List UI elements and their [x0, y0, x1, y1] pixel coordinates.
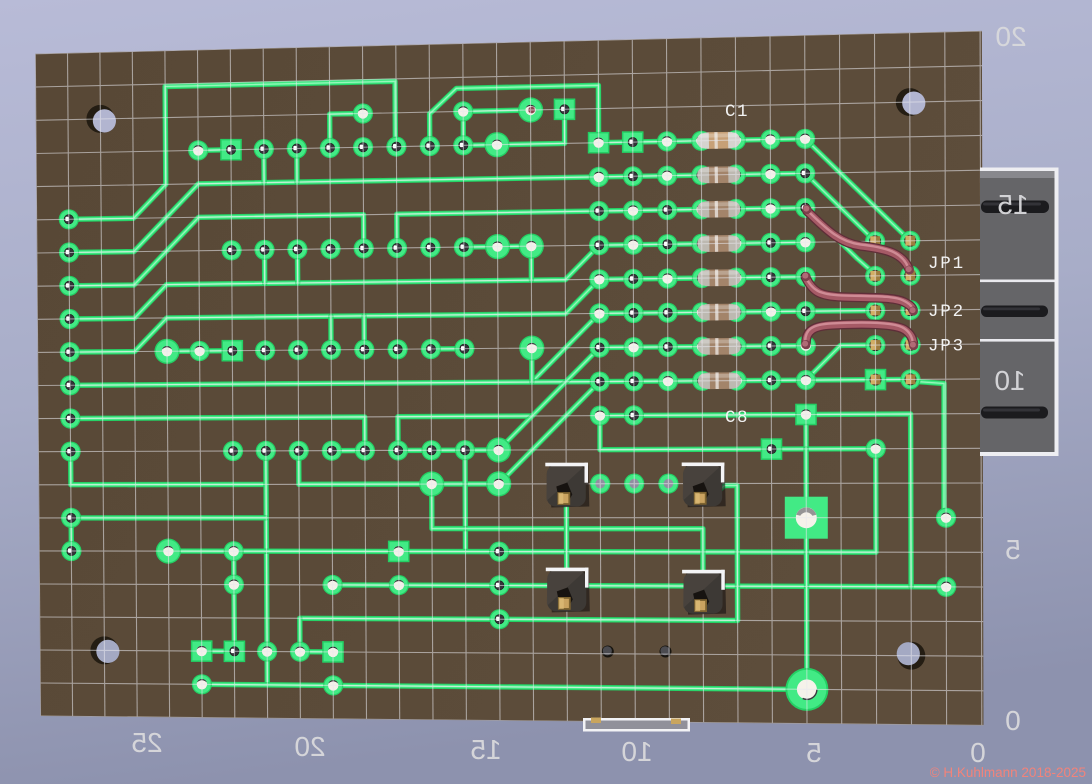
resistor row v5 — [697, 201, 740, 218]
pad (23,8) — [796, 301, 816, 321]
pad (18,6) — [623, 235, 643, 255]
resistor row v9 — [698, 338, 741, 355]
wire jp link 23-10 — [806, 345, 876, 380]
mounting hole top-right — [896, 88, 924, 116]
pad (11,12) — [388, 440, 408, 460]
pad (1,12) — [61, 442, 81, 462]
pad (22,7) — [761, 267, 781, 287]
svg-text:C1: C1 — [725, 102, 749, 122]
wire net big square column — [803, 449, 809, 690]
pad (4,9) — [154, 339, 179, 364]
capacitor C1 body — [697, 132, 740, 149]
mounting hole bottom-right — [897, 642, 925, 670]
pad (19,8) — [658, 303, 678, 323]
pad (8,3) — [287, 138, 307, 158]
wire net F tap u10 — [361, 316, 367, 350]
pad (1,9) — [60, 342, 80, 362]
wire row v5 right chain — [599, 208, 805, 211]
jumper pad (26,6) — [900, 231, 920, 251]
wire net v13 line — [299, 451, 499, 485]
svg-text:C8: C8 — [725, 408, 749, 428]
pad (22,12) — [761, 438, 783, 460]
pad (13,2) — [453, 101, 473, 121]
wire wire column u7 — [266, 451, 267, 652]
pad (21,4) — [726, 164, 746, 184]
pad (18,8) — [623, 303, 643, 323]
pad (22,9) — [761, 336, 781, 356]
pad (23,5) — [795, 198, 815, 218]
pad (5,3) — [188, 140, 208, 160]
pad (6,6) — [222, 240, 242, 260]
jumper wire W3 pad(23,9)->JP3 — [806, 324, 914, 344]
pad (18,11) — [624, 405, 644, 425]
wire net J tap v19 — [264, 652, 270, 685]
connector pin slot 2 — [981, 306, 1048, 318]
svg-text:25: 25 — [131, 727, 162, 758]
pad (14,17) — [489, 609, 509, 629]
pad (13,9) — [454, 339, 474, 359]
wire net B (v4 bus) — [69, 177, 599, 253]
pad (9,19) — [323, 675, 343, 695]
svg-text:0: 0 — [970, 737, 986, 768]
svg-text:10: 10 — [994, 365, 1025, 396]
connector bank (right edge, 3 sections) — [980, 168, 1059, 457]
wire net B tap u8 — [294, 149, 300, 183]
svg-text:15: 15 — [470, 734, 501, 765]
wire net I (v11 mid) — [398, 416, 532, 450]
pad (23,7) — [795, 267, 815, 287]
resistor row v6 — [697, 235, 740, 252]
pad (1,11) — [60, 408, 80, 428]
pad (5,19) — [192, 674, 212, 694]
jumper pad (25,7) — [865, 266, 885, 286]
wire row v3 right chain — [599, 139, 806, 143]
wire net pad10-2 jog — [330, 114, 363, 148]
connector divider lines — [980, 280, 1055, 283]
edge connector bottom (far-side part) — [583, 718, 690, 732]
mounting hole top-left — [86, 105, 114, 133]
pad (11,3) — [386, 137, 406, 157]
wire diagonal pad14-12 to pad17-9 — [499, 348, 600, 451]
pad (6,12) — [223, 441, 243, 461]
wire row v3 seg a — [198, 147, 231, 153]
wire column u6 v15-v18 — [231, 551, 237, 651]
pad (7,9) — [255, 340, 275, 360]
small hole left — [602, 646, 614, 658]
pad (18,7) — [623, 269, 643, 289]
pad (20,3) — [691, 131, 711, 151]
pad (20,6) — [692, 234, 712, 254]
pad (18,4) — [623, 166, 643, 186]
resistor row v8 — [698, 304, 741, 321]
wire net pair to pad27-14 — [912, 381, 947, 515]
svg-text:JP2: JP2 — [928, 302, 965, 322]
wire net v1b (second top bus) — [430, 85, 599, 146]
ruler numbers (mirrored bottom axis) — [131, 727, 162, 758]
svg-text:15: 15 — [997, 189, 1028, 220]
pad (4,15) — [156, 539, 181, 564]
pad (17,3) — [588, 132, 610, 154]
mounting hole bottom-left — [90, 636, 118, 664]
pad (13,6) — [454, 237, 474, 257]
svg-text:© H.Kuhlmann 2018-2025: © H.Kuhlmann 2018-2025 — [930, 765, 1086, 780]
pad (23,10) — [796, 370, 816, 390]
pad (1,6) — [59, 242, 79, 262]
switch SW2 — [682, 463, 726, 508]
pad (19,7) — [657, 268, 677, 288]
jumper pad (25,9) — [865, 335, 885, 355]
wire net F (v8 bus) — [70, 279, 600, 352]
pad (14,3) — [484, 132, 509, 157]
wire net G spur row10 — [532, 379, 600, 385]
big square pad (23,14) — [785, 497, 828, 539]
wire row v6 right chain — [599, 242, 805, 245]
pad (21,8) — [726, 302, 746, 322]
wire net v12 right — [600, 416, 876, 450]
pad (23,3) — [795, 129, 815, 149]
pad (8,12) — [289, 441, 309, 461]
switch SW3 — [546, 568, 590, 613]
pad (17,4) — [589, 167, 609, 187]
wire net left v14-v15 — [68, 518, 74, 551]
pad (10,9) — [354, 340, 374, 360]
pad (14,15) — [489, 542, 509, 562]
pad (6,15) — [224, 541, 244, 561]
wire net E tap u8 — [295, 249, 301, 283]
svg-text:5: 5 — [806, 737, 822, 768]
pad (22,4) — [760, 164, 780, 184]
wire net v17 bus — [300, 618, 738, 620]
wire net A (row1 top bus) — [69, 81, 396, 219]
svg-text:20: 20 — [294, 731, 325, 762]
wire net G (v10 bus) — [70, 313, 599, 385]
wire net E tap u7 — [262, 250, 268, 284]
pad (20,7) — [692, 268, 712, 288]
pad (8,6) — [287, 239, 307, 259]
pad (22,3) — [760, 129, 780, 149]
svg-text:5: 5 — [1005, 534, 1021, 565]
pad (18,9) — [624, 337, 644, 357]
wire row v11 pair — [600, 413, 634, 419]
pad (18,3) — [622, 131, 644, 153]
resistor row v10 — [698, 372, 741, 389]
pad (7,6) — [254, 240, 274, 260]
wire jp diag 23-5 — [805, 208, 875, 276]
pad (10,2) — [353, 103, 373, 123]
pad (6,16) — [224, 575, 244, 595]
wire row v9 mid seg — [431, 346, 465, 352]
pad (25,12) — [866, 439, 886, 459]
wire pair v10 row — [806, 377, 911, 383]
wire row v12 seg b — [398, 447, 499, 453]
pad (5,9) — [190, 341, 210, 361]
wire net B tap u7 — [261, 149, 267, 183]
wire net J (v13 left) — [71, 452, 266, 485]
svg-text:10: 10 — [621, 736, 652, 767]
pad (1,15) — [61, 541, 81, 561]
pad (19,4) — [657, 166, 677, 186]
pad (19,5) — [657, 200, 677, 220]
pad (27,16) — [936, 577, 956, 597]
pad (14,16) — [489, 575, 509, 595]
pad pair (26,10) — [900, 369, 920, 389]
pad (17,6) — [589, 235, 609, 255]
svg-text:JP3: JP3 — [928, 337, 965, 357]
pad (1,5) — [59, 209, 79, 229]
big round pad (23,19) — [785, 668, 828, 711]
pad (9,12) — [322, 441, 342, 461]
pad (17,10) — [590, 372, 610, 392]
jumper pad (26,8) — [900, 300, 920, 320]
pad (16,2) — [554, 99, 576, 121]
pad (23,11) — [795, 404, 817, 426]
pad (14,13) — [486, 471, 511, 496]
wire net pad13-2 drop — [461, 111, 466, 145]
pad (11,16) — [389, 575, 409, 595]
pad (8,18) — [290, 642, 310, 662]
wire row v18 seg a — [202, 648, 235, 654]
pad (9,3) — [320, 138, 340, 158]
pad (23,6) — [795, 232, 815, 252]
wire net v14 line — [71, 515, 266, 521]
jumper pad (26,9) — [900, 335, 920, 355]
pad (21,7) — [726, 268, 746, 288]
pad (12,6) — [420, 237, 440, 257]
pad (19,9) — [658, 337, 678, 357]
pad (11,6) — [387, 238, 407, 258]
grid overlay — [35, 31, 983, 726]
pad (19,6) — [657, 234, 677, 254]
pad (9,6) — [320, 239, 340, 259]
wire row v3 seg b — [463, 142, 497, 148]
wire row v12 seg a — [332, 448, 365, 454]
wire net D (v5 right) — [397, 211, 599, 248]
pad (17,11) — [590, 406, 610, 426]
wire net v19 bottom bus — [202, 684, 807, 689]
wire row v4 right chain — [599, 173, 805, 177]
pad (22,6) — [761, 233, 781, 253]
wire net sq16-2 link — [497, 109, 565, 144]
pad (15,6) — [519, 234, 544, 259]
pad (12,12) — [421, 440, 441, 460]
wire net v15 bus — [234, 449, 876, 553]
wire row v9 right chain — [600, 346, 806, 348]
wire net C (v5 left) — [69, 215, 363, 286]
jumper wire W1 pad(23,5)->JP1 — [807, 211, 909, 269]
svg-text:0: 0 — [1005, 705, 1021, 736]
wire net v15 seg left — [168, 548, 233, 554]
pad (22,5) — [761, 198, 781, 218]
pad (19,13) — [658, 474, 678, 494]
pad (19,3) — [657, 131, 677, 151]
PCB board substrate (bottom view) — [35, 31, 983, 726]
wire net G tap pad15-9 — [529, 348, 535, 382]
pad (14,12) — [486, 437, 511, 462]
wire jp diag 23-4 — [805, 173, 875, 241]
wire net F tap u9 — [328, 316, 334, 350]
switch SW4 — [682, 570, 726, 615]
wire net E (v7 bus) — [70, 245, 600, 319]
resistor row v7 — [698, 269, 741, 286]
pad (18,10) — [624, 371, 644, 391]
wire row v9 left seg — [167, 348, 232, 354]
pad (9,9) — [321, 340, 341, 360]
switch SW1 — [545, 463, 589, 508]
pad (22,10) — [761, 370, 781, 390]
pad (17,9) — [590, 337, 610, 357]
pad (12,9) — [421, 339, 441, 359]
pad (6,18) — [224, 641, 246, 663]
pad (27,14) — [936, 508, 956, 528]
pad (12,3) — [420, 136, 440, 156]
pad (7,18) — [257, 641, 277, 661]
pad (19,10) — [658, 371, 678, 391]
jumper pad (26,7) — [900, 265, 920, 285]
wire row v10 right chain — [600, 380, 806, 382]
pad (20,5) — [692, 199, 712, 219]
wire net v16 bus — [333, 585, 947, 587]
pad (1,10) — [60, 375, 80, 395]
pad (1,14) — [61, 508, 81, 528]
pad (9,18) — [322, 641, 344, 663]
wire jp link 23-8 — [806, 308, 876, 314]
wire row v8 right chain — [599, 311, 805, 313]
wire row v7 right chain — [599, 277, 805, 280]
pad (15,2) — [518, 97, 543, 122]
pad (12,13) — [419, 471, 444, 496]
pad (22,8) — [761, 302, 781, 322]
pad (10,3) — [353, 137, 373, 157]
resistor row v4 — [697, 166, 740, 183]
pad (1,8) — [60, 309, 80, 329]
pad (9,16) — [323, 575, 343, 595]
pad (20,8) — [692, 302, 712, 322]
wire net v16-v11 riser — [634, 414, 911, 587]
pad (20,10) — [692, 371, 712, 391]
jumper wire W2 pad(23,7)->JP2 — [806, 278, 913, 310]
pad (15,9) — [519, 336, 544, 361]
wire row v18 seg b — [300, 649, 333, 655]
pad (10,12) — [355, 440, 375, 460]
wire diagonal pad14-13 to pad17-10 — [499, 382, 600, 484]
pad (20,9) — [692, 337, 712, 357]
pad (8,9) — [288, 340, 308, 360]
pad (21,9) — [726, 336, 746, 356]
pad (23,9) — [796, 336, 816, 356]
wire net swD feed — [432, 484, 703, 578]
connector pin slot 3 — [981, 407, 1048, 419]
wire net swA-swC link — [564, 504, 570, 577]
pad (23,4) — [795, 163, 815, 183]
wire solder glints — [803, 204, 810, 211]
pad (21,3) — [726, 130, 746, 150]
pad (17,7) — [589, 269, 609, 289]
wire net swB contact link — [715, 486, 738, 621]
wire net sq23-11 drop — [803, 415, 808, 449]
pad (6,3) — [220, 139, 242, 161]
pad (7,3) — [254, 139, 274, 159]
pad (21,6) — [726, 233, 746, 253]
pad (13,12) — [455, 440, 475, 460]
small hole right — [660, 646, 672, 658]
pad (20,4) — [691, 165, 711, 185]
pad (1,7) — [59, 276, 79, 296]
pad (17,13) — [590, 474, 610, 494]
wire jp diag 23-3 — [805, 139, 910, 241]
jumper pad (25,8) — [865, 300, 885, 320]
svg-text:20: 20 — [995, 21, 1026, 52]
wire net v17 drop pad8-18 — [297, 618, 303, 651]
pad (11,9) — [388, 339, 408, 359]
wire net E tap u15 — [529, 246, 535, 280]
wire row v6 right segs — [464, 246, 531, 247]
wire net H (v11 left) — [70, 417, 365, 451]
connector pin slot 1 — [981, 201, 1049, 214]
jumper pad (25,6) — [865, 231, 885, 251]
pad (18,5) — [623, 200, 643, 220]
pad (21,10) — [727, 371, 747, 391]
pad (18,13) — [624, 474, 644, 494]
pad (6,9) — [222, 340, 244, 362]
pad (11,15) — [388, 541, 410, 563]
pad (14,6) — [485, 234, 510, 259]
pad (17,8) — [589, 303, 609, 323]
pad pair (25,10) — [865, 369, 887, 391]
svg-text:JP1: JP1 — [928, 254, 965, 274]
pad (5,18) — [191, 640, 213, 662]
pad (7,12) — [256, 441, 276, 461]
wire net v2 row — [463, 110, 530, 111]
pad (13,3) — [453, 135, 473, 155]
pad (10,6) — [354, 238, 374, 258]
wire vertical u13 to v15 — [462, 450, 468, 551]
pad (17,5) — [589, 201, 609, 221]
pad (21,5) — [726, 199, 746, 219]
